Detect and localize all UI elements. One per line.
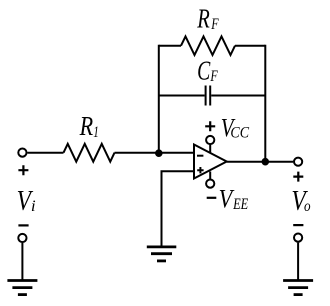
ground (non-inverting input) bbox=[147, 247, 177, 261]
wire Vi port to ground bbox=[21, 243, 23, 280]
wire R1 to inverting input bbox=[115, 152, 194, 154]
wire top-right feedback bbox=[235, 45, 265, 47]
label RF bbox=[196, 5, 218, 34]
label +VCC bbox=[205, 115, 249, 144]
op-amp U1 bbox=[194, 145, 227, 179]
label CF bbox=[197, 57, 218, 87]
output terminal Vo circle bbox=[294, 158, 302, 166]
label + (Vo port) bbox=[293, 172, 303, 182]
wire left feedback vertical bbox=[158, 45, 160, 154]
label - (Vi port) bbox=[18, 224, 28, 226]
wire output bbox=[227, 161, 294, 163]
wire VCC stub bbox=[209, 145, 211, 154]
label + (Vi port) bbox=[18, 165, 28, 175]
svg-text:F: F bbox=[210, 15, 218, 33]
label - (Vo port) bbox=[293, 224, 303, 226]
label Vi bbox=[17, 183, 37, 216]
input terminal Vi bottom circle bbox=[18, 234, 26, 242]
label R1 bbox=[79, 112, 99, 142]
ground (Vo port) bbox=[283, 281, 313, 295]
input terminal Vi top circle bbox=[18, 149, 26, 157]
terminal VCC circle bbox=[206, 136, 214, 144]
svg-text:EE: EE bbox=[232, 196, 248, 214]
wire Vo port to ground bbox=[297, 243, 299, 280]
svg-text:i: i bbox=[31, 197, 36, 215]
resistor RF bbox=[181, 36, 235, 55]
wire top-left feedback bbox=[159, 45, 181, 47]
wire VEE stub bbox=[209, 172, 211, 180]
node input junction bbox=[155, 149, 163, 157]
wire input to R1 bbox=[27, 152, 63, 154]
capacitor CF bbox=[206, 86, 211, 106]
resistor R1 bbox=[64, 144, 115, 162]
svg-text:o: o bbox=[304, 198, 311, 215]
output terminal Vo bottom circle bbox=[294, 234, 302, 242]
svg-text:CC: CC bbox=[230, 125, 249, 142]
label -VEE bbox=[207, 185, 249, 214]
ground (Vi port) bbox=[7, 281, 37, 295]
wire capacitor left bbox=[159, 95, 205, 97]
node output junction bbox=[262, 158, 270, 166]
terminal VEE circle bbox=[206, 180, 214, 188]
wire right feedback vertical bbox=[264, 45, 266, 162]
svg-text:1: 1 bbox=[93, 123, 99, 140]
svg-text:C: C bbox=[197, 57, 210, 87]
svg-text:F: F bbox=[210, 67, 218, 85]
svg-text:R: R bbox=[196, 5, 210, 34]
svg-text:R: R bbox=[79, 112, 93, 142]
wire non-inverting input to ground bbox=[162, 171, 194, 246]
label Vo bbox=[291, 183, 310, 216]
wire capacitor right bbox=[211, 95, 265, 97]
